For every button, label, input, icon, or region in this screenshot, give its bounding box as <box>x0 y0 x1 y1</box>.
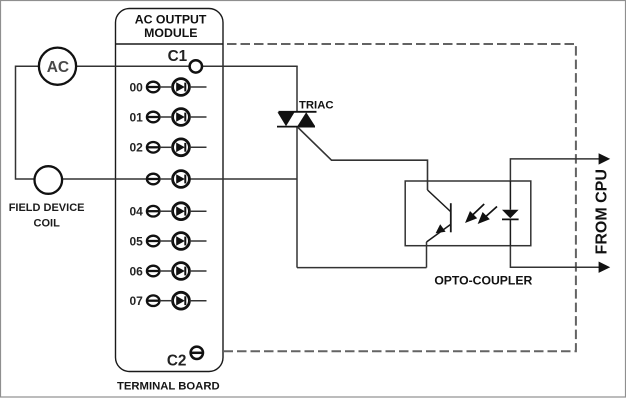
AC source <box>39 48 76 85</box>
svg-text:FIELD DEVICE: FIELD DEVICE <box>9 202 85 214</box>
opto LED <box>502 181 519 246</box>
wire AC to C1 <box>76 65 189 67</box>
LED indicator 05 <box>160 233 207 250</box>
terminal 07 screw <box>147 295 161 306</box>
wire opto anode to CPU <box>510 159 599 181</box>
terminal C2 <box>190 347 204 359</box>
terminal 05 screw <box>147 236 161 247</box>
svg-text:FROM CPU: FROM CPU <box>593 169 610 254</box>
module outline <box>116 9 224 372</box>
svg-text:02: 02 <box>129 141 143 155</box>
opto-coupler box <box>405 181 531 246</box>
LED indicator 04 <box>160 203 207 220</box>
LED indicator 02 <box>160 139 207 156</box>
wire triac anode drop <box>296 66 298 112</box>
wire coil to terminal 03 <box>62 178 147 180</box>
svg-text:01: 01 <box>129 110 143 124</box>
light arrow 2 <box>479 207 497 223</box>
wire triac to bottom rail <box>296 127 298 268</box>
svg-text:C1: C1 <box>168 48 188 65</box>
svg-text:07: 07 <box>129 294 143 308</box>
terminal number labels <box>129 80 143 308</box>
triac gate wire <box>298 127 428 190</box>
svg-text:MODULE: MODULE <box>144 26 197 40</box>
LED indicator 03 <box>160 171 190 188</box>
svg-text:04: 04 <box>129 205 143 219</box>
svg-text:TRIAC: TRIAC <box>299 99 334 111</box>
LED indicator 01 <box>160 109 207 126</box>
svg-text:AC OUTPUT: AC OUTPUT <box>135 13 207 27</box>
module title separator <box>116 43 224 45</box>
terminal 03 screw <box>147 174 161 185</box>
LED indicators <box>160 79 207 310</box>
terminal 04 screw <box>147 206 161 217</box>
wire AC left <box>16 66 39 179</box>
svg-text:C2: C2 <box>167 352 187 369</box>
wire C1 to triac drop <box>202 65 298 67</box>
svg-text:COIL: COIL <box>34 218 61 230</box>
wire bottom rail to emitter <box>297 267 427 269</box>
terminal C1 <box>190 60 202 72</box>
wire opto cathode to CPU <box>510 246 599 268</box>
arrow to CPU top <box>599 153 611 164</box>
dashed boundary <box>223 44 576 351</box>
terminal 02 screw <box>147 142 161 153</box>
svg-text:AC: AC <box>47 59 69 76</box>
LED indicator 07 <box>160 292 207 309</box>
LED indicator 00 <box>160 79 207 96</box>
LED indicator 06 <box>160 263 207 280</box>
triac <box>277 112 317 127</box>
light arrow 1 <box>467 204 485 222</box>
svg-text:06: 06 <box>129 264 143 278</box>
arrow to CPU bottom <box>599 262 611 273</box>
svg-text:05: 05 <box>129 234 143 248</box>
svg-text:TERMINAL BOARD: TERMINAL BOARD <box>117 381 220 393</box>
svg-text:00: 00 <box>129 80 143 94</box>
terminal rows <box>147 82 161 306</box>
terminal 00 screw <box>147 82 161 93</box>
terminal 01 screw <box>147 112 161 123</box>
svg-text:OPTO-COUPLER: OPTO-COUPLER <box>434 273 532 287</box>
field device coil <box>35 166 63 194</box>
phototransistor <box>427 190 451 268</box>
wire terminal 03 to triac drop <box>190 178 297 180</box>
terminal 06 screw <box>147 266 161 277</box>
